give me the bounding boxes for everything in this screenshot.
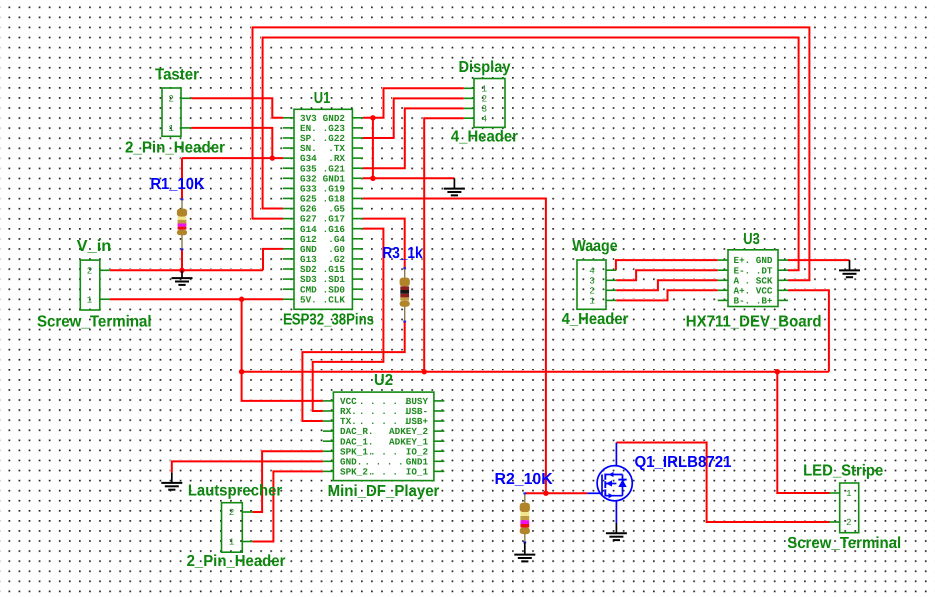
wire 5V rail up to Display pin4 [424,118,464,372]
svg-text:R1_10K: R1_10K [150,176,205,193]
wire 5V rail down to LED_Stripe pin1 [777,372,829,493]
svg-text:4_Header: 4_Header [562,311,629,328]
wire U1 G16 to U2 RX [313,229,384,411]
svg-text:Taster: Taster [155,66,199,83]
junction node LED pin1 branch [775,369,780,374]
svg-text:Display: Display [459,59,511,76]
svg-text:Q1_IRLB8721: Q1_IRLB8721 [634,454,731,471]
svg-text:R3_1k: R3_1k [382,245,422,262]
header Waage 4_Header [577,260,616,309]
svg-text:IO_1: IO_1 [406,466,429,477]
wire U1 G17 to R3 top [363,219,405,269]
svg-text:U3: U3 [743,231,760,248]
junction node GND1 [370,176,375,181]
wire GND2 to GND1 vertical [372,118,374,178]
svg-text:2_Pin_Header: 2_Pin_Header [125,140,225,157]
label Screw_Terminal (V_in) [37,313,152,330]
header Display 4_Header [464,79,505,128]
header Lautsprecher 2_Pin_Header [222,503,253,553]
wire U1 G26 to U3 DT [263,38,799,271]
svg-text:2: 2 [87,265,93,276]
svg-text:1: 1 [87,294,93,305]
header V_in Screw_Terminal [80,260,110,310]
label R3_1k [382,245,422,262]
ground symbol right of U3 [839,260,860,277]
label ESP32_38Pins [283,312,374,329]
svg-text:U2: U2 [374,372,393,389]
label R2_10K [495,471,554,488]
svg-text:.B+: .B+ [756,296,773,307]
svg-text:1: 1 [589,296,595,307]
junction node 5V main rail [239,369,244,374]
wire 5V vertical down to U2 VCC [242,299,323,401]
label V_in [77,238,112,255]
wire Display pin2 to U1 G22 [363,98,464,138]
resistor R1 10K [177,198,187,250]
wire R1 bottom to GND junction [181,249,183,270]
wire U2 GND to ground [172,461,323,472]
svg-text:V_in: V_in [77,238,112,255]
junction node 5V at V_in [239,297,244,302]
ground symbol under R2 [514,542,535,561]
svg-text:.CLK: .CLK [323,294,346,305]
svg-text:SPK_2.: SPK_2. [340,466,373,477]
svg-text:2_Pin_Header: 2_Pin_Header [187,553,286,570]
wire 5V rail up to U3 VCC [788,290,829,371]
wire Taster pin2 to U1 3V3 [191,98,283,118]
wire Lautsprecher pin2 to U2 SPK_1 [253,451,323,512]
svg-text:LED_Stripe: LED_Stripe [803,463,883,480]
wire Waage pin2 to U3 A- [616,280,718,290]
label R1_10K [150,176,205,193]
label Lautsprecher [188,482,282,499]
wire Lautsprecher pin1 to U2 SPK_2 [253,471,323,541]
svg-text:HX711_DEV_Board: HX711_DEV_Board [686,313,822,330]
resistor R2 10K [520,492,530,543]
wire Display pin3 to U1 G21 [363,108,464,168]
wire R3 bottom to U2 TX [302,322,404,421]
svg-text:2: 2 [846,517,852,528]
op-amp U1 ESP32_38Pins body [283,109,363,309]
svg-text:1: 1 [229,537,235,548]
svg-text:4: 4 [482,113,488,124]
ground symbol under R1 [172,270,193,285]
label Waage [572,238,617,255]
wire U1 G18 to R2/Q1 gate node [363,198,546,493]
svg-text:Mini_DF_Player: Mini_DF_Player [328,483,440,500]
resistor R3 1k [400,267,410,322]
header LED_Stripe Screw_Terminal [830,483,859,533]
header Taster 2_Pin_Header [162,88,191,136]
label Display [459,59,511,76]
ground symbol right of U1 [444,178,465,195]
wire Taster pin1 to node at R1 top [191,128,272,158]
label 2_Pin_Header (Taster) [125,140,225,157]
pin labels U1 [300,113,345,305]
label U1 [314,90,331,107]
svg-text:Lautsprecher: Lautsprecher [188,482,282,499]
junction node Display pin4 branch [422,369,427,374]
junction node Taster1-G34-R1 [270,155,275,160]
svg-text:B-.: B-. [734,296,751,307]
label 4_Header (Display) [451,128,518,145]
wire V_in pin1 / 5V to U1 5V pin [110,298,283,300]
ground symbol under Q1 [606,523,627,540]
svg-text:U1: U1 [314,90,331,107]
svg-text:Screw_Terminal: Screw_Terminal [787,535,901,552]
wire 5V horizontal rail [242,371,829,373]
label 2_Pin_Header (Lautsprecher) [187,553,286,570]
svg-text:ESP32_38Pins: ESP32_38Pins [283,312,374,329]
pin labels U2 [340,396,429,477]
transistor Q1 IRLB8721 MOSFET [587,443,632,524]
svg-text:1: 1 [168,123,174,134]
junction node gate-R2 [543,491,548,496]
svg-text:Screw_Terminal: Screw_Terminal [37,313,152,330]
wire V_in pin2 / GND net to U1 GND [110,249,283,270]
label Screw_Terminal (LED_Stripe) [787,535,901,552]
label HX711_DEV_Board [686,313,822,330]
junction node GND2 [370,115,375,120]
wire U3 GND to ground [788,259,850,261]
svg-text:1: 1 [846,488,852,499]
svg-text:5V.: 5V. [300,294,317,305]
wire U1 G27 to U3 SCK [253,27,810,280]
svg-text:Waage: Waage [572,238,617,255]
label U3 [743,231,760,248]
svg-text:. . .: . . . [370,466,398,477]
pin labels U3 [734,255,773,306]
junction node GND at R1 bottom [179,268,184,273]
svg-text:2: 2 [168,93,174,104]
op-amp U3 HX711_DEV_Board body [718,250,788,307]
op-amp U2 Mini_DF_Player body [323,392,445,481]
wire R1 top / U1 G34 [182,158,283,199]
wire Waage pin3 to U3 E- [616,270,718,280]
wire Waage pin4 to U3 E+ [616,260,718,270]
label Q1_IRLB8721 [634,454,731,471]
label 4_Header (Waage) [562,311,629,328]
label Taster [155,66,199,83]
svg-text:R2_10K: R2_10K [495,471,554,488]
wire U1 GND1 to ground [363,177,454,179]
wire Q1 drain to LED_Stripe pin2 [616,443,829,523]
svg-text:4_Header: 4_Header [451,128,518,145]
ground symbol left of U2 [161,473,182,490]
wire Waage pin1 to U3 A+ [616,290,718,300]
label U2 [374,372,393,389]
label Mini_DF_Player [328,483,440,500]
wire gate node to Q1 gate [525,492,588,494]
label LED_Stripe [803,463,883,480]
wire Display pin1 to U1 GND2 [363,88,464,118]
svg-text:2: 2 [229,507,235,518]
